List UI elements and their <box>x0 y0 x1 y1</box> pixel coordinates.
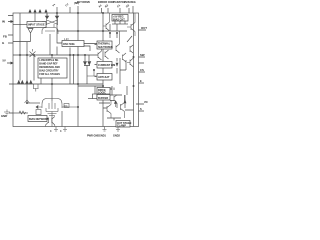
wire horizontal y31 <box>57 30 127 32</box>
wire vertical x117 mid <box>116 58 118 74</box>
wire horizontal y44 osc to A <box>84 44 97 52</box>
svg-text:GND: GND <box>1 114 7 118</box>
svg-text:V+: V+ <box>52 3 57 8</box>
svg-text:OSC 500k: OSC 500k <box>63 43 75 46</box>
transistor Q9 <box>127 58 134 67</box>
block E driver <box>97 95 110 101</box>
wire horizontal y86 right <box>78 86 103 94</box>
svg-text:E: E <box>140 80 142 83</box>
wire vertical x41 box bottom <box>41 55 74 84</box>
top pin stubs <box>57 6 78 13</box>
svg-text:G: G <box>2 41 5 45</box>
svg-text:VO: VO <box>144 101 148 104</box>
svg-text:B2: B2 <box>105 4 110 9</box>
svg-text:SW: SW <box>140 53 145 57</box>
wire horizontal y55 <box>13 54 98 56</box>
wire vertical x57 top <box>57 13 62 55</box>
block D logic <box>97 88 110 95</box>
ground G6 <box>116 127 120 132</box>
cross-coupled pair Q1 Q2 <box>47 13 57 19</box>
svg-text:ERROR COMPARATOR: ERROR COMPARATOR <box>98 1 126 4</box>
transistor Q5 top-right <box>127 13 135 36</box>
wire horizontal y103 left <box>27 102 40 104</box>
border frame of IC <box>13 13 139 127</box>
transistor Q15 mid right <box>114 95 117 103</box>
svg-text:CLAMP: CLAMP <box>117 125 126 128</box>
svg-text:D2: D2 <box>126 4 131 9</box>
block A thermal <box>97 41 112 49</box>
svg-text:CS: CS <box>140 68 144 72</box>
wire right cluster <box>103 86 134 110</box>
svg-text:S: S <box>140 108 142 111</box>
small box right of pair <box>64 104 69 108</box>
svg-text:C1: C1 <box>117 4 122 9</box>
svg-text:INPUT STAGE: INPUT STAGE <box>28 24 45 27</box>
wire vertical x50 tail <box>49 34 51 55</box>
wire horizontal y113 left <box>13 112 28 114</box>
svg-text:CURRENT LIM: CURRENT LIM <box>98 64 115 67</box>
svg-text:GND1: GND1 <box>99 135 107 138</box>
arrowhead left of pair <box>36 106 38 109</box>
transistor Q8b <box>123 53 127 62</box>
svg-text:BIAS CKT: BIAS CKT <box>113 19 125 22</box>
svg-text:IN: IN <box>2 20 5 24</box>
wire vertical x126 <box>120 60 126 70</box>
block bias network <box>28 116 47 122</box>
top-right pin stubs <box>102 6 134 13</box>
wire vertical x110 x117 <box>110 24 117 38</box>
svg-text:LOGIC: LOGIC <box>98 92 106 95</box>
transistor Q4b left of reg box <box>103 13 110 31</box>
wire horizontal y84 <box>13 83 103 85</box>
peak on y103 <box>25 100 30 103</box>
diode pair tail <box>84 66 90 85</box>
triangle under input box <box>28 29 33 42</box>
svg-text:1.2V: 1.2V <box>64 39 69 41</box>
ground G4 <box>63 127 67 132</box>
emitter hatches <box>48 114 57 116</box>
wire IN to input stage <box>13 24 27 26</box>
wire vertical x20 <box>19 13 21 81</box>
wire vertical x52 mid <box>51 84 53 101</box>
transistor Q6 <box>98 47 102 60</box>
diode D1 pair <box>84 62 91 66</box>
dual transistor dome Q3 <box>42 24 58 34</box>
svg-text:A1: A1 <box>98 4 103 9</box>
transistor Q16 bottom left <box>46 117 55 127</box>
svg-text:GND2: GND2 <box>113 135 121 138</box>
svg-text:BIAS NETWORK: BIAS NETWORK <box>29 118 49 121</box>
current arrow A2 <box>115 102 117 107</box>
wire vertical x27 <box>26 42 28 103</box>
svg-text:ANTI-SAT: ANTI-SAT <box>98 76 110 79</box>
ground G5 <box>103 127 107 132</box>
block bandgap reference <box>38 58 67 78</box>
wire horizontal y118 <box>99 86 127 121</box>
wire into block C <box>87 70 97 76</box>
resistor stubs on top rail <box>30 11 46 22</box>
block output clamp <box>116 121 130 128</box>
wire vertical x62 bottom <box>61 111 63 127</box>
svg-text:4: 4 <box>60 130 62 133</box>
svg-text:FB: FB <box>3 35 7 39</box>
svg-text:BUFFER: BUFFER <box>98 97 108 100</box>
svg-text:FOR ALL STAGES: FOR ALL STAGES <box>39 73 60 76</box>
right terminal ticks <box>136 30 146 111</box>
diode arrow right column <box>116 63 118 66</box>
wire vertical x34 <box>33 55 35 81</box>
transistor Q8 <box>116 31 120 53</box>
triangle peak on y55 <box>30 49 36 57</box>
wire horizontal y41.5 <box>13 41 31 43</box>
ground G1 left <box>4 110 10 116</box>
svg-text:4: 4 <box>50 130 52 133</box>
diff pair dome Q11 <box>42 99 62 109</box>
wire horizontal y24 right <box>112 23 128 25</box>
ground G3 <box>54 127 58 132</box>
block input stage <box>27 22 46 28</box>
junction dots <box>109 32 110 33</box>
block C shutdown <box>97 74 112 81</box>
small box node R <box>93 94 98 99</box>
transistor Q5b right border <box>130 45 133 53</box>
wire vertical x85 x89 diode feeds <box>85 55 89 61</box>
current source arrowheads on y84 <box>18 81 21 84</box>
resistor R1 zigzag <box>19 111 26 114</box>
svg-text:+VIN REG: +VIN REG <box>124 1 136 4</box>
arrow mid right <box>124 100 126 103</box>
box entry arrows <box>95 45 97 77</box>
left terminal ticks <box>7 16 13 114</box>
block B current limit <box>97 62 112 69</box>
wire vertical x103 <box>102 13 104 127</box>
transistor Q14 bottom right b <box>121 95 125 118</box>
wire vertical x78 <box>77 13 79 127</box>
svg-text:OUT: OUT <box>141 26 147 30</box>
svg-text:SHUTDOWN: SHUTDOWN <box>98 46 113 49</box>
transistor Q7 <box>105 50 109 59</box>
block top right reg <box>112 15 128 22</box>
wire vertical x47 <box>46 13 48 16</box>
pi transistor under y84 <box>33 84 39 92</box>
wire corner y97 <box>88 98 93 100</box>
svg-text:PWR GND: PWR GND <box>87 135 99 138</box>
svg-text:FET DRIVE: FET DRIVE <box>77 1 90 4</box>
transistor Q13 bottom right a <box>107 100 111 118</box>
wire vertical x120 <box>119 58 121 84</box>
small box left of pair <box>36 110 41 115</box>
diagonal emitter path top right <box>127 36 132 42</box>
svg-text:5V: 5V <box>3 59 6 63</box>
box stubs top right <box>115 21 125 24</box>
svg-text:CT: CT <box>65 3 70 8</box>
wire vertical x133 <box>133 13 135 127</box>
wire vertical x70 <box>69 48 71 85</box>
block oscillator <box>62 41 84 47</box>
